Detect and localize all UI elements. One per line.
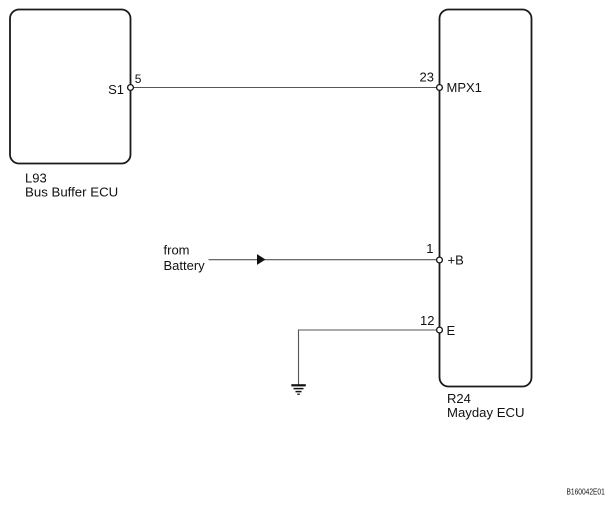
wire E: R24 pin 12 left and down to ground [299, 330, 437, 385]
ECU block R24 (Mayday ECU) [440, 10, 532, 387]
figure code B160042E01 [567, 487, 606, 497]
svg-text:23: 23 [420, 70, 434, 85]
svg-text:5: 5 [135, 72, 142, 86]
svg-text:Mayday ECU: Mayday ECU [447, 405, 525, 420]
label L93 Bus Buffer ECU [25, 171, 118, 200]
svg-text:+B: +B [448, 253, 464, 268]
terminal S1 pin 5 on L93 [108, 72, 142, 97]
svg-text:12: 12 [420, 313, 434, 328]
svg-text:1: 1 [426, 241, 433, 256]
terminal R24 pin 12 E [420, 313, 455, 338]
label from Battery [164, 243, 206, 273]
svg-text:from: from [164, 243, 190, 258]
ECU block L93 (Bus Buffer ECU) [10, 10, 131, 164]
svg-text:Bus Buffer ECU: Bus Buffer ECU [25, 185, 118, 200]
terminal R24 pin 23 MPX1 [420, 70, 482, 95]
svg-text:R24: R24 [447, 391, 471, 406]
svg-text:Battery: Battery [164, 258, 206, 273]
svg-text:B160042E01: B160042E01 [567, 487, 606, 497]
svg-text:S1: S1 [108, 82, 124, 97]
svg-text:MPX1: MPX1 [447, 80, 482, 95]
svg-text:E: E [447, 323, 456, 338]
terminal R24 pin 1 +B [426, 241, 464, 268]
wire +B from battery to R24 pin 1 [209, 259, 437, 261]
arrow head on battery wire [257, 254, 266, 265]
label R24 Mayday ECU [447, 391, 525, 420]
wire MPX1: S1 pin 5 to R24 pin 23 [134, 87, 437, 89]
ground symbol [291, 385, 306, 394]
svg-text:L93: L93 [25, 171, 47, 186]
